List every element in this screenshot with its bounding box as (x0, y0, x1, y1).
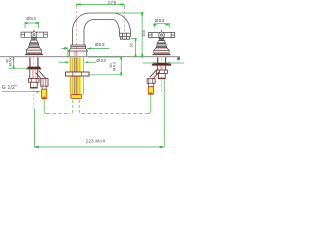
svg-text:G 1/2": G 1/2" (2, 85, 17, 91)
svg-text:52: 52 (128, 43, 133, 47)
svg-text:MAX: MAX (9, 57, 13, 66)
svg-text:Ø33: Ø33 (96, 58, 106, 63)
svg-text:158: 158 (141, 30, 146, 37)
svg-text:Ø53: Ø53 (155, 18, 165, 23)
svg-text:Ø53: Ø53 (26, 16, 36, 21)
svg-text:MAX: MAX (112, 61, 116, 70)
svg-text:Ø53: Ø53 (95, 42, 105, 47)
svg-text:179: 179 (108, 0, 117, 5)
svg-text:223 MAX: 223 MAX (86, 139, 106, 144)
